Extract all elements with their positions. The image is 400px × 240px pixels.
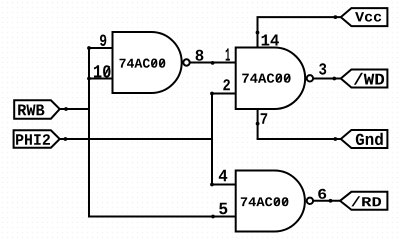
wire: RWB to input bus [60, 108, 90, 110]
wire: gate2 output pin 3 to /WD [313, 78, 341, 80]
wire: pin 7 to Gnd [257, 138, 341, 140]
junction at RWB tip [64, 107, 68, 111]
junction at Gnd tip [333, 137, 337, 141]
pin number 5 [219, 203, 227, 215]
pin number 3 [319, 63, 326, 74]
junction at /WD tip [332, 77, 336, 81]
NAND gate U1C 74AC00 body [236, 171, 313, 232]
wire: pin 7 vertical [257, 109, 259, 140]
port label Gnd [341, 130, 388, 148]
wire: bottom run to pin 5 [88, 216, 236, 218]
wire: gate3 output pin 6 to /RD [313, 200, 340, 202]
port label RWB [14, 100, 60, 118]
pin number 7 [261, 113, 268, 124]
junction at Vcc tip [334, 15, 338, 19]
pin number 4 [219, 170, 228, 181]
value label 74AC00 (gate 1) [120, 59, 166, 68]
junction at /RD tip [329, 199, 333, 203]
junction bottom run [211, 215, 215, 219]
junction pin 2 [210, 92, 214, 96]
junction pin 7 [256, 122, 260, 126]
port label /RD [340, 192, 387, 210]
junction pin 9 [87, 46, 91, 50]
pin number 8 [196, 50, 204, 61]
wire: PHI2 to gate bus [60, 138, 213, 140]
pin number 14 [262, 35, 279, 46]
wire: pin 2 stub [211, 93, 236, 95]
NAND gate U1A 74AC00 body [113, 32, 190, 93]
port label PHI2 [14, 130, 60, 147]
wire: pin 4 stub [211, 184, 236, 186]
pin number 10 [94, 65, 111, 77]
wire: pin 14 vertical [257, 17, 259, 47]
wire: gate1 output pin 8 to pin 1 [190, 62, 236, 64]
pin number 9 [100, 35, 106, 47]
pin number 6 [318, 189, 326, 199]
NAND gate U1B 74AC00 body [236, 48, 313, 110]
wire: input bus vertical (RWB net) [88, 48, 90, 217]
junction on pin1 wire [211, 61, 215, 65]
value label 74AC00 (gate 3) [241, 197, 289, 206]
junction pin 14 [256, 31, 260, 35]
pin number 1 [226, 48, 230, 60]
pin number 2 [223, 79, 230, 90]
value label 74AC00 (gate 2) [242, 74, 290, 83]
wire: pin 10 stub [88, 78, 113, 80]
junction at PHI2 tip [64, 137, 68, 141]
port label Vcc [341, 8, 388, 26]
wire: PHI2 bus vertical pin2-pin4 [211, 94, 213, 185]
wire: pin 9 stub [88, 47, 113, 49]
junction pin 4 [210, 183, 214, 187]
port label /WD [341, 70, 388, 88]
junction pin 10 [87, 77, 91, 81]
wire: pin 14 to Vcc [257, 16, 342, 18]
